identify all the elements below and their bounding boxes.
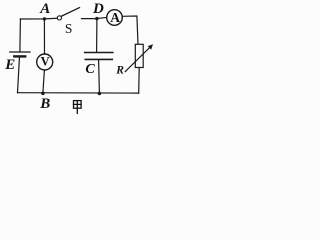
wire switch to node D [82,18,97,20]
switch S pivot circle [57,16,61,20]
label E [4,57,15,73]
wire node D to capacitor [96,19,98,52]
label D [92,1,104,17]
capacitor C top plate [85,52,113,54]
rheostat R body [135,44,143,67]
caption 甲 (drawn strokes) [74,101,82,114]
wire capacitor to bottom wire [98,60,101,93]
battery E long plate [10,51,30,53]
ammeter letter A [110,10,120,25]
wire voltmeter to node B [43,70,45,93]
svg-text:R: R [115,64,124,76]
svg-text:C: C [85,62,95,77]
wire bottom [18,92,139,94]
voltmeter letter V [41,55,50,69]
svg-text:B: B [39,96,50,112]
capacitor C bottom plate [85,58,112,60]
svg-text:V: V [41,55,50,69]
node D [95,17,98,20]
voltmeter V circle [37,54,53,70]
rheostat R arrow [125,44,153,71]
ammeter U1 circle [107,10,123,26]
svg-text:A: A [39,1,50,17]
svg-text:S: S [65,21,73,36]
svg-text:D: D [92,1,104,17]
label C [85,62,95,77]
label B [39,96,50,112]
svg-text:A: A [110,10,120,25]
label S [65,21,73,36]
svg-text:E: E [4,57,15,73]
node capacitor-bottom junction [98,92,102,96]
wire ammeter to top-right corner [122,16,138,44]
wire left vertical: corner to battery top [19,19,22,52]
battery E short plate [14,55,25,57]
wire top-left: corner A to switch [20,17,57,20]
node A [43,17,46,20]
wire rheostat to bottom-right corner [138,68,141,94]
label A [39,1,50,17]
wire node D to ammeter [97,18,107,19]
wire battery to bottom-left corner [18,57,20,93]
label R [115,64,124,76]
switch S lever [61,8,79,17]
wire node A to voltmeter [43,19,45,54]
node B [41,92,45,96]
